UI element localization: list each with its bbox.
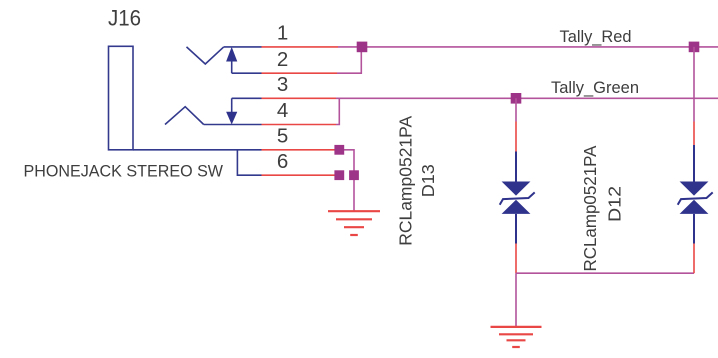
wire pin3 red segment xyxy=(262,97,337,99)
svg-text:2: 2 xyxy=(277,48,288,71)
svg-text:PHONEJACK STEREO SW: PHONEJACK STEREO SW xyxy=(24,161,224,180)
svg-text:3: 3 xyxy=(277,73,288,96)
wire pin6 red segment xyxy=(262,174,337,176)
svg-text:6: 6 xyxy=(277,150,288,173)
pin 3 stub xyxy=(232,97,262,99)
pin 6 stub xyxy=(237,150,261,175)
arrow contact pin 2 (up arrow) xyxy=(226,47,237,62)
ground GND1 (pins 5/6) xyxy=(328,211,380,235)
junction pin6 on ground riser xyxy=(349,170,359,180)
wire D13 bottom red segment xyxy=(515,244,517,274)
pin 1 stub xyxy=(224,46,262,48)
junction Tally_Green / D13 xyxy=(511,93,522,104)
svg-text:1: 1 xyxy=(277,22,288,45)
svg-text:D13: D13 xyxy=(418,164,438,197)
wire pin2 to Tally_Red riser xyxy=(337,47,361,73)
node pin6 terminal square xyxy=(334,170,344,180)
wire D13 to ground riser xyxy=(515,273,517,326)
svg-text:J16: J16 xyxy=(108,5,141,30)
switch contact chevron (tip, pin 1) xyxy=(187,47,224,64)
svg-text:RCLamp0521PA: RCLamp0521PA xyxy=(580,145,600,271)
pin 4 stub xyxy=(204,124,262,126)
wire D12 top red segment xyxy=(693,122,695,146)
wire net Tally_Red xyxy=(338,46,718,48)
diode D12 (TVS RCLamp0521PA) xyxy=(678,145,713,244)
wire pin2 red segment xyxy=(262,72,338,74)
ground GND2 (TVS common) xyxy=(491,327,542,347)
svg-text:5: 5 xyxy=(277,124,288,147)
wire pin4 to Tally_Green riser xyxy=(336,98,339,124)
pin 5 stub (from sleeve body) xyxy=(133,149,262,151)
connector J16 body (jack sleeve rectangle) xyxy=(109,46,134,150)
wire ground bus (D13 to D12) xyxy=(516,272,694,274)
wire D13 top (net segment) xyxy=(515,98,517,121)
wire net Tally_Green xyxy=(336,97,718,99)
wire pin5 to ground riser xyxy=(340,150,354,211)
wire pin1 red segment xyxy=(262,46,339,48)
junction Tally_Red / D12 xyxy=(689,42,700,53)
wire pin5 red segment xyxy=(262,149,337,151)
svg-text:D12: D12 xyxy=(604,186,624,222)
node pin5 terminal square xyxy=(334,145,344,155)
arrow contact pin 3 (down arrow) xyxy=(231,98,233,112)
junction pin1/pin2 on Tally_Red xyxy=(357,42,368,53)
svg-text:4: 4 xyxy=(277,99,288,122)
wire D12 bottom red segment xyxy=(693,244,695,274)
wire pin4 red segment xyxy=(262,124,337,126)
wire D13 top red segment xyxy=(515,122,517,152)
switch contact chevron (ring, pin 4) xyxy=(165,107,204,125)
svg-text:Tally_Red: Tally_Red xyxy=(560,27,632,46)
diode D13 (TVS RCLamp0521PA) xyxy=(500,152,535,244)
pin 2 stub xyxy=(232,72,262,74)
svg-text:RCLamp0521PA: RCLamp0521PA xyxy=(396,115,416,245)
wire D12 top (net segment, crosses Tally_Green) xyxy=(693,47,695,122)
svg-text:Tally_Green: Tally_Green xyxy=(551,78,639,97)
